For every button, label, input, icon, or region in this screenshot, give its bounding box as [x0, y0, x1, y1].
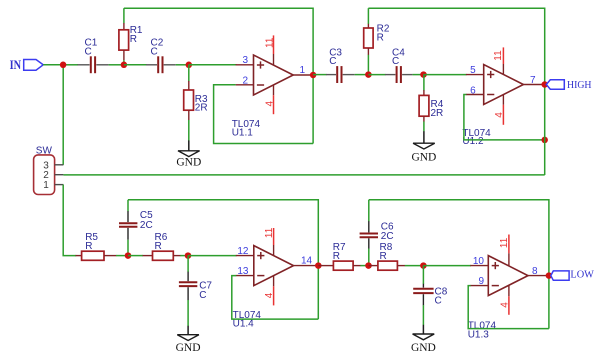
svg-text:C: C: [199, 290, 206, 301]
svg-text:C: C: [151, 46, 158, 57]
svg-text:R: R: [380, 251, 387, 262]
wire C7 to GND3: [187, 300, 189, 326]
svg-text:R: R: [377, 32, 384, 43]
resistor R8: [369, 261, 406, 270]
junction node I: [420, 262, 427, 269]
svg-text:4: 4: [264, 292, 275, 298]
op-amp U1.3: [488, 256, 528, 296]
wire node D to C4: [368, 74, 385, 76]
svg-text:3: 3: [242, 55, 248, 66]
op-amp U1.1: [254, 55, 294, 95]
wire C3 to node D: [355, 74, 369, 76]
label C4 value C: [392, 47, 405, 67]
svg-text:9: 9: [478, 276, 484, 287]
resistor R1: [119, 23, 129, 65]
svg-text:8: 8: [532, 266, 538, 277]
junction node H: [365, 262, 372, 269]
wire node B to C2: [124, 64, 147, 66]
wire C5 to node F: [127, 240, 129, 256]
capacitor C8: [413, 284, 433, 306]
label R7 value R: [333, 242, 346, 262]
label C2 value C: [151, 38, 164, 58]
svg-text:4: 4: [265, 100, 276, 106]
ground GND1: [176, 140, 201, 168]
svg-text:R: R: [85, 241, 92, 252]
capacitor C6: [360, 221, 378, 248]
junction node B: [121, 62, 128, 69]
port HIGH: [546, 80, 591, 91]
U1.3 pin 10 lead: [470, 265, 488, 267]
label C1 value C: [85, 38, 98, 58]
label C6 value 2C: [381, 221, 394, 242]
wire R2 top to feedback: [367, 8, 369, 24]
top feedback wire stage2: [368, 8, 544, 84]
port LOW: [551, 269, 594, 280]
capacitor C4: [385, 66, 413, 83]
resistor R3: [184, 81, 194, 120]
junction node F: [125, 252, 132, 259]
capacitor C7: [179, 272, 197, 301]
svg-text:GND: GND: [411, 342, 436, 354]
wire node E to U1.2 pin 5: [424, 74, 467, 76]
svg-text:6: 6: [470, 85, 476, 96]
U1.4 power pin 4: [264, 276, 275, 306]
capacitor C3: [326, 66, 355, 83]
svg-text:2: 2: [242, 76, 248, 87]
U1.1 pin 2 lead: [236, 84, 254, 86]
svg-text:U1.2: U1.2: [462, 136, 484, 147]
svg-text:C: C: [329, 56, 336, 67]
label R5 value R: [85, 232, 98, 252]
ground GND3: [176, 326, 201, 354]
svg-text:2C: 2C: [381, 231, 394, 242]
resistor R5: [76, 251, 117, 260]
resistor R2: [364, 24, 373, 55]
resistor R4: [419, 90, 429, 122]
svg-text:11: 11: [264, 227, 275, 238]
svg-text:7: 7: [530, 75, 536, 86]
wire R2 to node D: [367, 55, 369, 75]
U1.4 pin 14 output lead: [294, 265, 319, 267]
op-amp U1.4: [254, 246, 294, 286]
label C7 value C: [199, 281, 212, 301]
wire node I to U1.3 pin 10: [423, 265, 471, 267]
wire C2 to node C: [176, 64, 189, 66]
svg-text:14: 14: [301, 255, 313, 266]
wire node C to U1.1 pin 3: [189, 64, 237, 66]
svg-text:11: 11: [499, 237, 510, 248]
capacitor C2: [146, 56, 176, 73]
wire U1.1 output to C3: [313, 74, 326, 76]
label U1.3 TL074: [468, 320, 497, 340]
U1.2 pin 5 lead: [466, 74, 484, 76]
label U1.4 TL074: [233, 310, 262, 330]
junction node A: [60, 62, 67, 69]
svg-text:GND: GND: [176, 157, 201, 169]
wire node A down to SW pin 3: [62, 65, 64, 165]
U1.4 pin 13 lead: [236, 275, 254, 277]
wire R4 to GND2: [423, 122, 425, 132]
op-amp U1.2: [484, 65, 524, 105]
svg-text:12: 12: [237, 246, 249, 257]
wire U1.1 feedback pin 2 loop: [214, 85, 314, 144]
svg-text:GND: GND: [411, 151, 436, 163]
wire node C down to R3: [188, 65, 190, 82]
top feedback wire stage1: node B up, across to U1.1 output: [123, 61, 125, 65]
svg-text:C: C: [392, 56, 399, 67]
label R1 value R: [130, 25, 143, 45]
svg-text:10: 10: [473, 256, 485, 267]
label C8 value C: [435, 286, 448, 306]
svg-text:R: R: [130, 34, 137, 45]
U1.3 power pin 4: [500, 285, 511, 315]
capacitor C5: [119, 211, 137, 240]
U1.1 power pin 4: [265, 85, 276, 114]
wire C5 top to feedback: [127, 200, 129, 212]
svg-text:GND: GND: [176, 342, 201, 354]
U1.1 pin 1 output lead: [293, 74, 313, 76]
svg-text:C: C: [435, 295, 442, 306]
wire R5 to node F: [116, 255, 128, 257]
junction node E: [420, 71, 427, 78]
svg-text:C: C: [85, 46, 92, 57]
svg-text:5: 5: [470, 65, 476, 76]
wire U1.3 feedback pin 9 loop: [468, 286, 549, 329]
wire R3 to GND1: [188, 120, 190, 141]
wire C1 to node B: [109, 64, 124, 66]
wire C8 to GND4: [422, 305, 424, 325]
resistor R6: [143, 251, 181, 260]
label U1.2 TL074: [462, 128, 491, 147]
wire U1.4 feedback pin 13 loop: [232, 276, 318, 320]
ground GND4: [411, 325, 436, 354]
wire R6 to node G: [180, 255, 188, 257]
label R6 value R: [155, 232, 168, 252]
wire SW pin 1 down to low-pass input: [63, 185, 76, 256]
svg-text:2R: 2R: [195, 103, 208, 114]
junction node G: [185, 252, 192, 259]
wire node I down to C8: [422, 266, 424, 284]
svg-text:11: 11: [493, 50, 504, 61]
U1.2 pin 6 lead: [466, 94, 484, 96]
svg-text:R: R: [333, 251, 340, 262]
ground GND2: [411, 131, 436, 163]
label R8 value R: [380, 242, 393, 262]
svg-text:1: 1: [299, 65, 305, 76]
U1.3 pin 8 output lead: [528, 275, 549, 277]
svg-text:2R: 2R: [431, 108, 444, 119]
junction node C: [186, 62, 193, 69]
port IN: [10, 58, 44, 72]
svg-text:U1.1: U1.1: [232, 128, 254, 139]
wire IN to node A: [43, 64, 63, 66]
svg-text:11: 11: [265, 37, 276, 48]
svg-text:HIGH: HIGH: [567, 80, 592, 91]
junction U1.1 output node: [310, 72, 317, 79]
label R4 value 2R: [431, 99, 444, 119]
wire node F to R6: [128, 255, 143, 257]
svg-text:1: 1: [43, 180, 49, 191]
svg-text:LOW: LOW: [570, 269, 594, 280]
svg-text:2C: 2C: [140, 220, 153, 231]
U1.3 pin 9 lead: [470, 285, 488, 287]
wire node G down to C7: [187, 256, 189, 272]
label C5 value 2C: [140, 210, 153, 231]
svg-text:4: 4: [500, 302, 511, 308]
U1.2 power pin 11: [493, 47, 504, 74]
resistor R7: [318, 261, 360, 270]
U1.3 power pin 11: [499, 235, 510, 266]
label C3 value C: [329, 47, 342, 67]
svg-text:13: 13: [237, 266, 249, 277]
top feedback wire stage4: [369, 200, 549, 329]
wire C6 top to feedback: [368, 200, 370, 222]
junction node D: [365, 71, 372, 78]
wire node A to C1: [63, 64, 78, 66]
wire R8 to node I: [405, 265, 424, 267]
wire node G to U1.4 pin 12: [188, 255, 237, 257]
label R3 value 2R: [195, 94, 208, 113]
U1.2 power pin 4: [494, 95, 505, 125]
label R2 value R: [377, 23, 390, 43]
U1.4 pin 12 lead: [236, 255, 254, 257]
wire SW pin 2 to U1.2 output (HIGH rail): [63, 174, 544, 176]
svg-text:IN: IN: [10, 58, 22, 72]
svg-text:U1.4: U1.4: [233, 319, 255, 330]
U1.1 pin 3 lead: [236, 64, 254, 66]
junction U1.2 feedback node: [541, 137, 548, 144]
junction U1.3 output node: [546, 272, 553, 279]
junction U1.4 output node: [315, 262, 322, 269]
wire C4 to node E: [413, 74, 424, 76]
wire C6 to node H: [368, 249, 370, 266]
connector SW: [34, 155, 64, 195]
capacitor C1: [78, 56, 109, 73]
wire U1.2 feedback pin 6 loop: [464, 95, 545, 140]
wire R1 top to feedback: [123, 8, 125, 23]
wire R7 to node H: [360, 265, 368, 267]
wire node E down to R4: [423, 75, 425, 91]
svg-text:SW: SW: [36, 145, 53, 156]
U1.2 pin 7 output lead: [523, 84, 544, 86]
top feedback wire stage3: [128, 200, 318, 319]
junction U1.2 output node: [541, 81, 548, 88]
svg-text:U1.3: U1.3: [468, 329, 490, 340]
svg-text:4: 4: [494, 112, 505, 118]
wire U1.2 output down to SW wire: [544, 85, 546, 176]
svg-text:R: R: [155, 241, 162, 252]
U1.4 power pin 11: [264, 227, 275, 255]
label U1.1 TL074: [232, 119, 261, 139]
U1.1 power pin 11: [265, 35, 276, 65]
